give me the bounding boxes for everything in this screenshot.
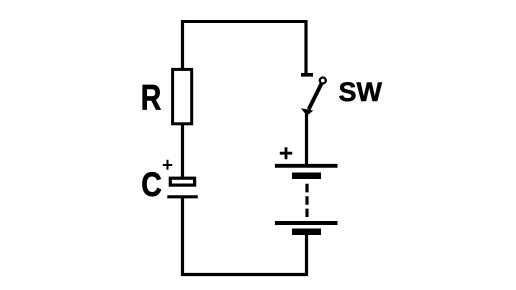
capacitor C bottom plate [167,195,198,198]
wire right rail lower (battery to bottom rail) [305,234,308,276]
capacitor C polarity + mark [163,160,172,170]
battery cell 1 positive plate [275,164,338,168]
battery polarity + mark [280,147,292,159]
battery cell 2 positive plate [275,221,338,225]
resistor R [173,69,192,123]
switch SW lever arrowhead [301,108,313,116]
wire right rail middle (switch to battery) [305,113,308,165]
switch SW lever [309,84,322,110]
capacitor C top plate (+) [170,178,194,185]
wire top rail [181,20,308,23]
wire bottom rail [181,273,308,276]
svg-text:SW: SW [339,77,383,107]
wire left rail middle (resistor to capacitor) [181,123,184,178]
svg-text:C: C [141,166,162,204]
svg-text:R: R [141,78,162,118]
battery cell 2 negative plate [292,229,321,236]
wire left rail upper (top rail to resistor) [181,20,184,70]
battery dashed cell link [305,184,308,217]
switch SW pivot circle [320,78,326,84]
battery cell 1 negative plate [292,173,321,180]
wire left rail lower (capacitor to bottom rail) [181,197,184,276]
switch SW top contact [301,73,313,77]
wire right rail upper (top rail to switch) [304,20,307,74]
